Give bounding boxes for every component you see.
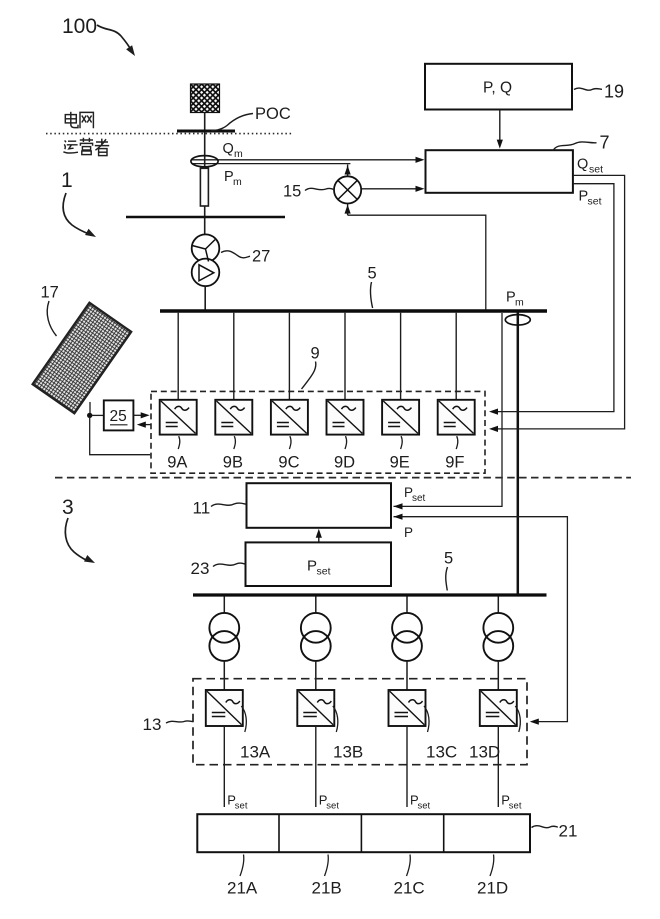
svg-text:POC: POC [255,105,291,123]
label 3 [62,496,97,566]
box 21 (loads) [197,814,530,852]
svg-text:9A: 9A [167,454,187,472]
boundary dotted line (grid operator boundary) [46,133,292,135]
thick tie wire bus to lower bus [517,312,520,595]
wire bus to transformer 1 [223,597,225,614]
P_set label 3 [410,793,431,812]
svg-text:set: set [326,801,339,812]
svg-text:9F: 9F [445,454,464,472]
wire bus to inverter 9E [400,313,402,400]
svg-text:13: 13 [143,715,162,734]
svg-text:set: set [235,801,248,812]
label 9E [390,436,410,471]
solar panel 17 [33,303,131,413]
svg-text:m: m [234,148,243,160]
svg-text:9: 9 [311,345,320,363]
svg-text:21C: 21C [394,879,425,898]
wire bus to inverter 9A [177,313,179,400]
svg-text:13A: 13A [240,743,271,762]
label 9 [302,345,320,390]
svg-text:9D: 9D [334,454,355,472]
label 100 [62,15,138,58]
grid symbol (hatched block) [191,84,220,113]
label 13A [240,706,271,762]
POC label and leader [211,105,291,131]
text 运营者 [63,138,109,156]
box 25 [104,400,134,430]
Q_m label [223,141,244,160]
svg-text:P, Q: P, Q [483,80,512,97]
svg-text:P: P [404,525,413,540]
wire transformer to main bus [204,286,206,310]
svg-text:9B: 9B [223,454,243,472]
label 5 (upper bus) [368,265,377,309]
wire inverter group to 25 (in) [141,424,152,426]
wire 23 to 11 [318,536,320,543]
bus P_m sensor ellipse [505,315,530,325]
label 9F [445,436,464,471]
label 21 [532,822,578,841]
wire bus to transformer 3 [406,597,408,614]
label 9D [334,436,355,471]
lower plant bus 5 [193,593,547,596]
wire bus to transformer 4 [497,597,499,614]
svg-text:9C: 9C [278,454,299,472]
wire Q_set from 7 to inverter group 9 [492,175,625,429]
svg-text:11: 11 [193,499,211,518]
label 21C [394,855,425,898]
summation element 15 [334,165,486,310]
svg-text:m: m [515,297,524,309]
wire bus to inverter 9F [455,313,457,400]
dashed box 13 (inverter group) [193,679,527,765]
POC bus bar [177,130,235,133]
svg-text:P: P [307,558,317,575]
svg-text:3: 3 [62,496,74,519]
wire junction down to inverter group [90,417,151,455]
controller box 7 [426,150,573,193]
label 27 [221,248,270,266]
svg-text:Q: Q [577,157,588,173]
wire bus to transformer 2 [315,597,317,614]
wire rect to mid bus [204,206,206,235]
P_set label [579,189,602,208]
P_m label (bus sensor) [506,290,524,309]
label 19 [574,82,624,102]
svg-text:27: 27 [252,248,270,266]
label 21B [312,855,342,898]
label 21A [227,855,258,898]
wire 19 to 7 [499,110,501,142]
label 9B [223,436,243,471]
wire P_set from 7 to inverter group 9 [492,184,614,412]
svg-text:15: 15 [283,183,301,201]
label 7 [553,133,610,153]
box 19 (P,Q specification) [425,64,572,110]
inverter 9E [382,400,419,435]
controller box 11 [247,483,392,528]
svg-text:m: m [233,176,242,188]
dashed box 9 (inverter group) [151,391,485,473]
svg-text:13D: 13D [469,743,500,762]
inverter 13A [206,690,243,726]
label 9A [167,436,187,471]
svg-text:13C: 13C [426,743,457,762]
svg-text:21B: 21B [312,879,342,898]
svg-text:set: set [509,801,522,812]
transformer 3 (two-winding) [392,613,422,661]
dashed separator between subsection 1 and 3 [55,477,631,479]
wire junction to box 25 [92,414,104,416]
svg-text:set: set [588,196,602,208]
svg-text:5: 5 [368,265,377,283]
svg-text:25: 25 [110,408,127,425]
box 21 dividers [279,814,444,852]
svg-text:5: 5 [444,550,453,568]
wire inverter 13B to load (P_set) [315,726,317,807]
cable impedance rect [200,168,208,206]
svg-text:21A: 21A [227,879,258,898]
inverter 13D [480,690,517,726]
svg-text:21: 21 [559,822,578,841]
label 13 [143,715,193,734]
wire panel to junction [89,402,91,414]
P_set label at controller 11 input [404,485,426,504]
svg-text:23: 23 [191,559,210,578]
inverter 9B [215,400,252,435]
P_set label 2 [319,793,340,812]
label 5 (lower bus) [444,550,453,591]
svg-text:Q: Q [223,141,234,157]
wire Q_m to controller 7 [192,159,421,161]
wire bus to inverter 9C [288,313,290,400]
mid bus bar [126,216,285,218]
inverter 9C [271,400,308,435]
P label at controller 11 [404,525,413,540]
wire grid block to POC bar [204,113,206,131]
label 17 [41,284,59,337]
label 21D [477,855,508,898]
label 15 [283,183,334,201]
wire transformer 3 to inverter [406,661,408,690]
svg-text:set: set [589,164,603,176]
svg-text:set: set [317,566,331,578]
inverter 13C [389,690,426,726]
wire transformer 4 to inverter [497,661,499,690]
svg-text:19: 19 [604,82,624,102]
wire inverter 13D to load (P_set) [497,726,499,807]
label 23 [191,559,246,578]
svg-text:13B: 13B [333,743,363,762]
label 9C [278,436,299,471]
wire POC bar down through sensor [204,132,206,168]
label 11 [193,499,247,518]
inverter 9F [438,400,475,435]
wire bus to inverter 9B [233,313,235,400]
text 电网 [65,112,93,128]
wire transformer 1 to inverter [223,661,225,690]
svg-text:9E: 9E [390,454,410,472]
junction dot [87,413,92,418]
svg-text:21D: 21D [477,879,508,898]
transformer 1 (two-winding) [209,613,239,661]
P_set label 4 [501,793,522,812]
wire P from 11 to inverter group 13 [394,517,568,722]
thin wire bus to controller 11 (P_set) [394,313,503,506]
P_set label 1 [227,793,248,812]
inverter 9D [327,400,364,435]
transformer 2 (two-winding) [301,613,331,661]
wire inverter 13A to load (P_set) [223,726,225,807]
transformer 4 (two-winding) [483,613,513,661]
svg-text:set: set [412,493,426,504]
wire inverter 13C to load (P_set) [406,726,408,807]
transformer 27 (Y over Delta) [192,234,220,286]
inverter 13B [297,690,334,726]
svg-text:100: 100 [62,15,97,38]
inverter 9A [160,400,197,435]
label 13B [333,706,363,762]
P_m label [224,169,242,188]
upper plant bus 5 [160,309,547,312]
wire P_m line [192,163,350,165]
svg-text:1: 1 [61,169,73,192]
svg-text:set: set [418,801,431,812]
wire 25 to inverter group (out) [133,414,145,416]
label 13C [424,706,457,762]
box 23 (P_set store) [246,542,392,586]
svg-text:17: 17 [41,284,59,302]
wire transformer 2 to inverter [315,661,317,690]
svg-text:7: 7 [600,133,610,153]
measurement sensor ellipse at POC [191,156,218,167]
wire bus to inverter 9D [344,313,346,400]
Q_set label [577,157,603,176]
label 1 [61,169,98,240]
label 13D [469,706,520,762]
